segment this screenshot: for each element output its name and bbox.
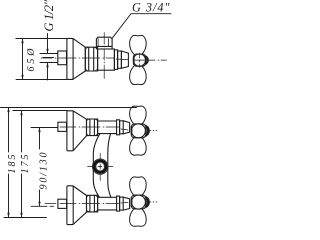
bonnet cone lower: [123, 197, 129, 210]
bonnet rings lower: [117, 196, 120, 211]
handle hub (side view): [133, 54, 145, 66]
escutcheon cone upper: [73, 111, 86, 151]
wall stub upper: [58, 122, 67, 131]
escutcheon flange (side): [67, 38, 73, 79]
handle hub left cap: [133, 56, 135, 64]
bonnet rings: [114, 50, 117, 70]
dimension 175 extension line: [13, 110, 68, 112]
dimension 90/130 extension lines: [31, 128, 58, 207]
valve body upper: [98, 119, 117, 136]
svg-text:G 3/4″: G 3/4″: [132, 1, 171, 15]
leader arrow up to pipe bottom: [47, 63, 49, 81]
escutcheon flange lower: [67, 186, 73, 225]
escutcheon cone: [73, 39, 85, 80]
handle upper: bottom bulb: [130, 138, 147, 155]
bonnet rings upper: [117, 120, 120, 135]
wire: G1/2 pipe stub lines: [40, 54, 58, 63]
column right edge: [108, 134, 111, 198]
valve body: [98, 49, 115, 70]
handle top lobe (side view): [130, 35, 147, 54]
handle upper: top bulb: [130, 106, 147, 124]
handle lower: bottom bulb: [130, 209, 147, 226]
handle lower: top bulb: [130, 177, 147, 195]
nut square on wall stub: [58, 51, 67, 65]
escutcheon cone lower: [73, 186, 86, 224]
bonnet cone upper: [123, 121, 129, 134]
center union outer ring (dark): [94, 161, 106, 173]
handle upper: hub barrel: [131, 124, 146, 138]
horizontal centerline top figure: [41, 57, 114, 59]
vertical centerline of hub: [138, 53, 140, 68]
vertical centerline of stub: [103, 33, 105, 79]
center dot: [99, 166, 101, 168]
centerline upper unit: [60, 126, 119, 128]
escutcheon flange upper: [67, 111, 73, 151]
wall stub lower: [58, 199, 67, 208]
hex nut: [85, 47, 97, 71]
bonnet cone: [121, 51, 128, 68]
hex nut upper: [87, 119, 98, 136]
svg-text:175: 175: [20, 155, 31, 174]
column left edge: [93, 134, 100, 198]
dimension 90/130 line: [39, 128, 41, 207]
svg-text:185: 185: [7, 155, 18, 174]
leader arrow down to pipe top: [47, 34, 49, 53]
dimension 185 line: [8, 108, 10, 218]
handle upper: hub circle: [131, 124, 145, 138]
union crosshair: [88, 153, 113, 180]
dimension 65Ø line with arrows: [22, 39, 24, 80]
valve body lower: [98, 195, 117, 212]
G 3/4 stub (top outlet): [96, 37, 112, 49]
center union inner circle: [96, 162, 105, 171]
handle lower: hub barrel: [131, 195, 146, 209]
handle upper: hub left cap: [131, 127, 133, 135]
handle upper: cap crescent: [146, 125, 149, 136]
dimension 185 extension lines: [1, 108, 137, 218]
dimension 175 line: [21, 111, 23, 218]
handle bottom lobe (side view): [130, 66, 147, 84]
dimension 65Ø extension lines: [16, 39, 73, 80]
leader line to G 3/4 label: [112, 14, 171, 39]
svg-text:65Ø: 65Ø: [26, 48, 37, 72]
handle lower: cap crescent: [146, 197, 149, 208]
handle lower: hub left cap: [131, 198, 133, 206]
centerline lower unit: [45, 203, 119, 205]
svg-text:G 1/2″: G 1/2″: [42, 0, 56, 32]
hex nut lower: [87, 195, 98, 212]
handle cap crescent: [146, 56, 149, 65]
handle lower: hub circle: [131, 195, 145, 209]
